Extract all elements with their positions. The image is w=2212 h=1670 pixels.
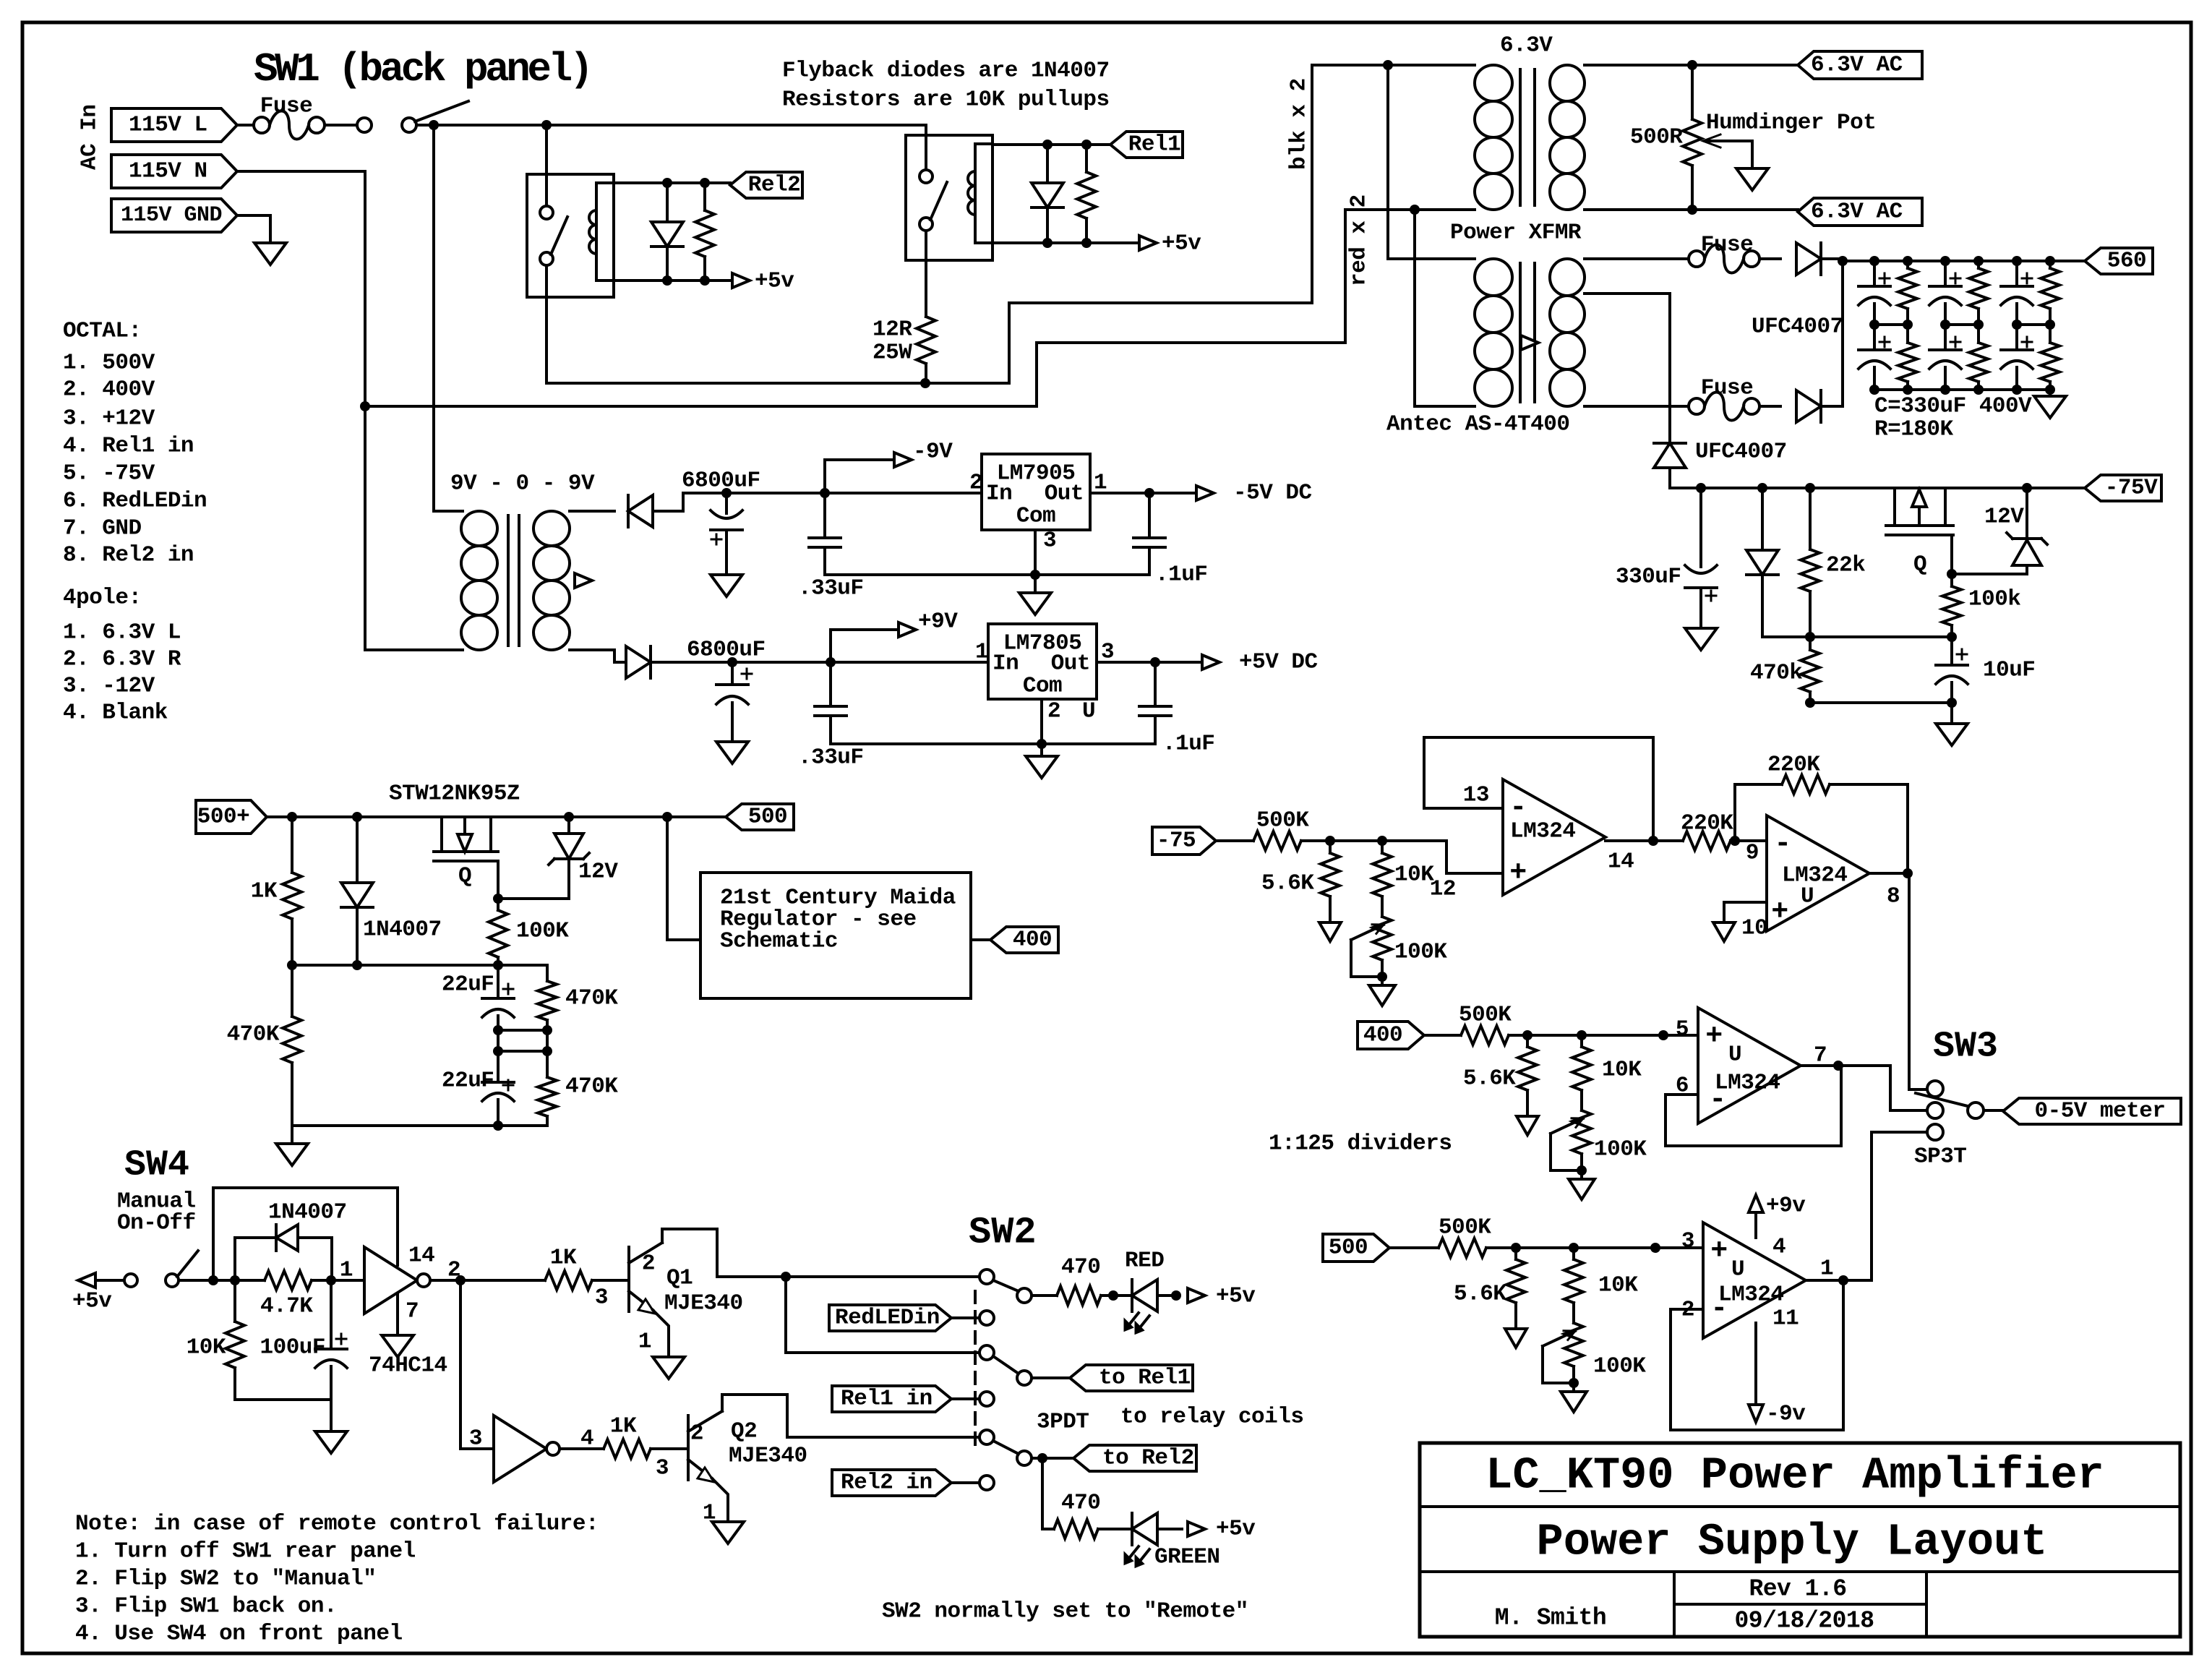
svg-text:22k: 22k [1826,553,1865,578]
svg-text:100k: 100k [1968,587,2020,612]
svg-text:Power Supply Layout: Power Supply Layout [1537,1517,2048,1568]
svg-text:LM324: LM324 [1782,863,1848,888]
svg-text:+: + [1710,1236,1728,1268]
svg-text:22uF: 22uF [442,972,494,998]
svg-text:4: 4 [1772,1235,1786,1260]
svg-text:+: + [1705,1021,1723,1053]
svg-text:09/18/2018: 09/18/2018 [1734,1608,1874,1635]
svg-text:25W: 25W [873,341,912,366]
svg-text:400: 400 [1363,1023,1402,1048]
svg-text:12V: 12V [1984,505,2024,530]
svg-text:500R: 500R [1630,125,1683,150]
svg-text:3. +12V: 3. +12V [63,406,155,432]
svg-text:10uF: 10uF [1983,658,2035,683]
svg-text:220K: 220K [1681,811,1733,836]
svg-text:-75: -75 [1157,828,1196,854]
svg-text:4. Rel1 in: 4. Rel1 in [63,434,194,459]
svg-text:Antec AS-4T400: Antec AS-4T400 [1386,412,1569,437]
svg-text:Q1: Q1 [666,1266,693,1291]
svg-text:1K: 1K [251,879,278,904]
svg-text:115V L: 115V L [129,113,207,138]
svg-text:115V N: 115V N [129,159,207,184]
svg-text:9V - 0 - 9V: 9V - 0 - 9V [450,471,595,497]
svg-text:SW4: SW4 [124,1145,189,1186]
svg-text:U: U [1731,1257,1744,1283]
svg-text:Humdinger Pot: Humdinger Pot [1706,111,1876,136]
svg-text:LM324: LM324 [1715,1071,1780,1096]
svg-text:.33uF: .33uF [798,576,864,601]
svg-text:7. GND: 7. GND [63,516,142,541]
svg-text:3: 3 [1681,1229,1694,1254]
svg-text:blk x 2: blk x 2 [1287,78,1312,170]
svg-text:1. 500V: 1. 500V [63,351,155,376]
svg-text:7: 7 [406,1299,419,1324]
svg-text:UFC4007: UFC4007 [1695,440,1787,465]
svg-text:560: 560 [2107,249,2146,274]
svg-text:+5V DC: +5V DC [1239,650,1318,675]
svg-text:14: 14 [1608,849,1634,875]
svg-text:4. Blank: 4. Blank [63,701,168,726]
svg-text:Q: Q [458,864,471,889]
svg-text:500: 500 [748,805,787,830]
svg-text:5.6K: 5.6K [1261,871,1314,896]
svg-text:STW12NK95Z: STW12NK95Z [389,782,520,807]
svg-text:Q: Q [1913,552,1926,578]
svg-text:SW2: SW2 [969,1212,1037,1254]
svg-text:10: 10 [1741,916,1767,941]
svg-text:5.6K: 5.6K [1454,1282,1506,1307]
svg-text:9: 9 [1746,841,1759,866]
svg-text:OCTAL:: OCTAL: [63,319,142,344]
svg-text:3PDT: 3PDT [1037,1410,1089,1435]
svg-text:3. -12V: 3. -12V [63,674,155,699]
svg-text:470k: 470k [1750,661,1802,686]
svg-text:2: 2 [690,1421,703,1447]
svg-text:+: + [1771,896,1788,929]
svg-text:1K: 1K [610,1414,637,1439]
svg-text:1N4007: 1N4007 [268,1200,347,1225]
svg-text:U: U [1728,1042,1741,1068]
svg-text:Fuse: Fuse [1701,233,1753,258]
svg-text:6800uF: 6800uF [687,638,766,663]
svg-text:10K: 10K [1394,862,1434,888]
svg-text:Rel2: Rel2 [748,173,800,198]
svg-text:to Rel1: to Rel1 [1099,1366,1191,1391]
svg-text:In: In [986,481,1012,507]
svg-text:1: 1 [638,1329,651,1355]
svg-text:On-Off: On-Off [117,1211,196,1236]
svg-text:Com: Com [1016,504,1055,529]
svg-text:3: 3 [595,1285,608,1311]
svg-text:4.7K: 4.7K [260,1294,313,1319]
svg-text:Resistors are 10K pullups: Resistors are 10K pullups [782,87,1110,113]
svg-text:Schematic: Schematic [720,929,838,954]
svg-text:+5v: +5v [1216,1284,1256,1309]
svg-text:2: 2 [447,1258,460,1283]
svg-text:UFC4007: UFC4007 [1752,314,1843,340]
svg-text:LM324: LM324 [1510,819,1576,844]
svg-text:MJE340: MJE340 [664,1291,743,1316]
svg-text:+5v: +5v [72,1289,112,1314]
svg-text:LM324: LM324 [1718,1283,1784,1308]
svg-text:SW1 (back panel): SW1 (back panel) [254,46,591,93]
svg-text:U: U [1801,884,1814,909]
svg-text:6.3V AC: 6.3V AC [1811,53,1903,78]
svg-text:to Rel2: to Rel2 [1102,1446,1194,1471]
svg-text:470: 470 [1061,1491,1100,1516]
svg-text:100K: 100K [1593,1354,1646,1379]
svg-text:RED: RED [1125,1249,1164,1274]
svg-text:220K: 220K [1767,753,1820,778]
svg-text:2. 400V: 2. 400V [63,377,155,403]
svg-text:red x 2: red x 2 [1347,194,1372,286]
svg-text:1: 1 [975,640,988,665]
svg-text:14: 14 [408,1243,434,1269]
svg-text:MJE340: MJE340 [729,1444,807,1469]
svg-text:+5v: +5v [1162,231,1201,257]
svg-text:6. RedLEDin: 6. RedLEDin [63,489,207,514]
svg-text:500K: 500K [1256,808,1309,834]
svg-text:11: 11 [1772,1306,1799,1332]
svg-text:500K: 500K [1459,1003,1512,1028]
svg-text:5: 5 [1676,1017,1689,1042]
svg-text:+9v: +9v [1766,1194,1806,1219]
svg-text:-9v: -9v [1766,1402,1806,1427]
svg-text:Q2: Q2 [731,1419,757,1444]
svg-text:to relay coils: to relay coils [1120,1405,1303,1430]
svg-text:GREEN: GREEN [1154,1545,1220,1570]
svg-text:3: 3 [1043,528,1056,554]
svg-text:115V GND: 115V GND [121,203,222,228]
svg-text:5. -75V: 5. -75V [63,461,155,487]
svg-text:6.3V AC: 6.3V AC [1811,200,1903,225]
svg-text:5.6K: 5.6K [1463,1066,1516,1092]
svg-text:330uF: 330uF [1616,565,1681,590]
svg-text:.1uF: .1uF [1162,732,1214,757]
svg-text:1: 1 [340,1258,353,1283]
svg-text:74HC14: 74HC14 [369,1353,447,1379]
svg-text:Flyback diodes are 1N4007: Flyback diodes are 1N4007 [782,59,1110,84]
svg-text:Out: Out [1051,651,1090,677]
svg-text:RedLEDin: RedLEDin [835,1306,940,1331]
svg-text:R=180K: R=180K [1874,417,1954,442]
svg-text:12R: 12R [873,317,912,343]
svg-text:Fuse: Fuse [1701,376,1753,401]
svg-text:+5v: +5v [1216,1517,1256,1542]
svg-text:SW2 normally set to "Remote": SW2 normally set to "Remote" [882,1599,1248,1624]
svg-text:+9V: +9V [918,609,958,635]
svg-text:LC_KT90 Power Amplifier: LC_KT90 Power Amplifier [1486,1450,2104,1502]
svg-text:6800uF: 6800uF [682,468,760,494]
svg-text:4. Use SW4 on front panel: 4. Use SW4 on front panel [75,1622,403,1647]
svg-text:10K: 10K [187,1335,226,1361]
svg-text:Out: Out [1045,481,1084,507]
svg-text:2. 6.3V R: 2. 6.3V R [63,647,181,672]
svg-text:Com: Com [1023,674,1062,699]
svg-text:470: 470 [1061,1255,1100,1280]
svg-text:.1uF: .1uF [1155,562,1207,588]
svg-text:-: - [1774,828,1791,861]
svg-text:8: 8 [1887,884,1900,909]
svg-text:1N4007: 1N4007 [363,917,442,943]
svg-text:U: U [1082,699,1095,724]
svg-text:10K: 10K [1602,1058,1642,1083]
svg-text:.33uF: .33uF [798,745,864,771]
svg-text:3: 3 [656,1456,669,1481]
svg-text:10K: 10K [1598,1273,1638,1298]
svg-text:-5V DC: -5V DC [1233,481,1312,506]
svg-text:0-5V meter: 0-5V meter [2034,1099,2165,1124]
svg-text:Rel2 in: Rel2 in [841,1470,933,1496]
svg-text:SW3: SW3 [1933,1027,1998,1068]
svg-text:Rev 1.6: Rev 1.6 [1749,1576,1846,1603]
svg-text:+: + [1509,857,1527,890]
svg-text:400: 400 [1013,928,1052,953]
svg-text:12V: 12V [578,860,618,885]
svg-text:-9V: -9V [913,440,953,465]
svg-text:100K: 100K [1594,1137,1647,1162]
svg-text:Power XFMR: Power XFMR [1450,220,1582,246]
svg-text:In: In [993,651,1019,677]
svg-text:100K: 100K [516,919,569,944]
svg-text:+5v: +5v [755,269,794,294]
svg-text:2: 2 [969,471,982,496]
svg-text:SP3T: SP3T [1914,1144,1966,1170]
svg-text:1: 1 [1820,1256,1833,1282]
svg-text:3. Flip SW1 back on.: 3. Flip SW1 back on. [75,1594,337,1619]
svg-text:13: 13 [1463,783,1489,808]
svg-text:1K: 1K [550,1246,577,1271]
svg-text:1:125 dividers: 1:125 dividers [1269,1131,1452,1157]
svg-text:C=330uF 400V: C=330uF 400V [1874,394,2032,419]
svg-text:2. Flip SW2 to "Manual": 2. Flip SW2 to "Manual" [75,1567,376,1592]
svg-text:500K: 500K [1439,1215,1491,1241]
svg-text:6.3V: 6.3V [1500,33,1553,59]
svg-text:8. Rel2 in: 8. Rel2 in [63,543,194,568]
svg-text:470K: 470K [565,986,618,1011]
svg-text:1: 1 [703,1501,716,1526]
svg-text:-75V: -75V [2105,476,2158,501]
svg-text:1. 6.3V L: 1. 6.3V L [63,620,181,646]
svg-text:2: 2 [642,1251,655,1277]
svg-text:100K: 100K [1394,940,1447,965]
svg-text:100uF: 100uF [260,1335,325,1361]
svg-text:4pole:: 4pole: [63,586,142,611]
svg-text:500+: 500+ [197,805,249,830]
svg-text:470K: 470K [565,1074,618,1100]
svg-text:2: 2 [1047,699,1060,724]
svg-text:500: 500 [1329,1236,1368,1261]
svg-text:M. Smith: M. Smith [1495,1605,1606,1632]
svg-text:Rel1: Rel1 [1128,132,1180,158]
svg-text:1. Turn off SW1 rear panel: 1. Turn off SW1 rear panel [75,1539,416,1564]
svg-text:470K: 470K [227,1022,280,1048]
svg-text:3: 3 [469,1426,482,1452]
svg-text:12: 12 [1430,877,1456,902]
svg-text:Rel1 in: Rel1 in [841,1387,933,1412]
svg-text:AC In: AC In [77,104,103,170]
svg-text:22uF: 22uF [442,1069,494,1094]
svg-text:Note: in case of remote contro: Note: in case of remote control failure: [75,1512,599,1537]
